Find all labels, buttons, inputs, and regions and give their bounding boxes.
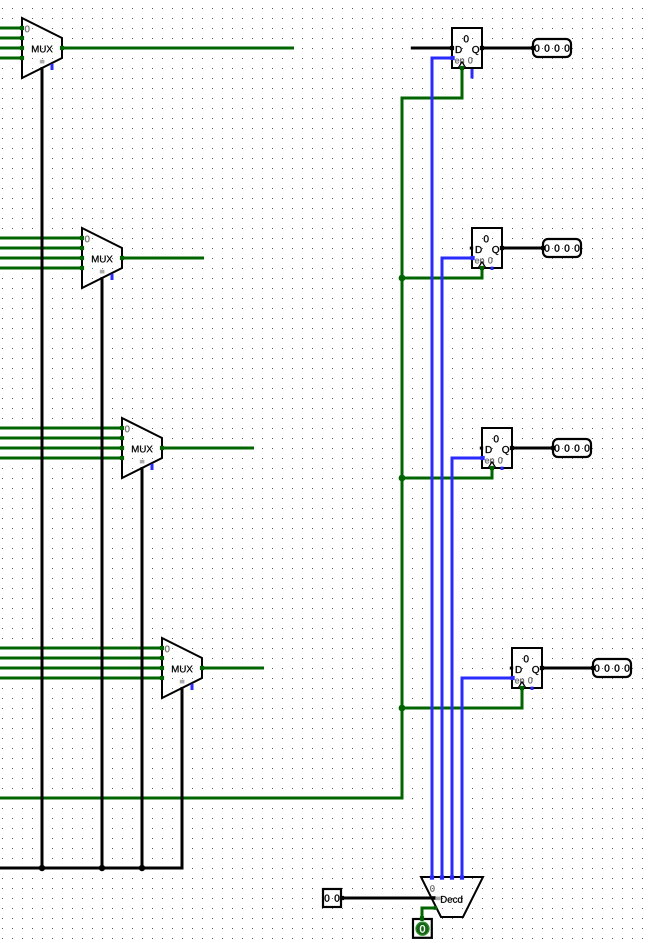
wire: MUX4 data input 2 [0, 667, 162, 670]
wire: MUX2 output [122, 257, 204, 260]
junction: select bus at (42,868) [39, 865, 45, 871]
wire: MUX4 output [202, 667, 264, 670]
wire: MUX2 select vertical [101, 277, 104, 868]
wire: MUX4 data input 1 [0, 657, 162, 660]
pin connection caps: enable inputs and decoder outputs (blue) [430, 56, 515, 880]
wire: MUX1 data input 0 [0, 27, 22, 30]
wire: MUX1 data input 3 [0, 57, 22, 60]
junction: clock net at (402,708) [399, 705, 406, 712]
junction: clock net at (402,478) [399, 475, 406, 482]
wire: U2 Q output to OUT2 [502, 247, 543, 250]
pin connection caps: flip-flop clock pins (green) [460, 66, 524, 690]
pin connection caps: MUX inputs/outputs (green) [20, 26, 204, 680]
mux MUX2 [82, 228, 122, 288]
output probe OUT2 (4-bit value 0000) [543, 239, 581, 257]
wire: MUX2 data input 1 [0, 247, 82, 250]
pin connection caps: black (D inputs, Q outputs, probe inputs, P1, decoder select) [340, 46, 595, 900]
junction: select bus at (102,868) [99, 865, 105, 871]
wire: select bus horizontal + MUX4 select vertical [0, 687, 182, 868]
wire: MUX1 data input 2 [0, 47, 22, 50]
mux MUX3 [122, 418, 162, 478]
wire: U4 Q output to OUT4 [542, 667, 593, 670]
output probe OUT4 (4-bit value 0000) [593, 659, 631, 677]
output probe OUT3 (4-bit value 0000) [553, 439, 591, 457]
wire: U1 preset pin stub (floating) [471, 68, 474, 79]
wire: MUX3 data input 3 [0, 457, 122, 460]
wire: clock branch to U3 [402, 468, 492, 478]
wire: MUX1 data input 1 [0, 37, 22, 40]
junction: clock net at (402,278) [399, 275, 406, 282]
wire: MUX3 select vertical [141, 467, 144, 868]
wire: U1 D input [411, 47, 452, 50]
wire: clock net trunk (U1 clock, down x=402, left along y=798) [0, 68, 462, 798]
input pin P2 (1-bit, value 0, green state circle) [413, 919, 432, 938]
wire: MUX3 data input 1 [0, 437, 122, 440]
wire: decoder output 1 to U2 enable [442, 258, 472, 879]
wire: MUX4 data input 3 [0, 677, 162, 680]
wire: U1 Q output to OUT1 [482, 47, 533, 50]
wire: MUX2 data input 0 [0, 237, 82, 240]
decoder DEC1 [421, 877, 483, 917]
mux MUX4 [162, 638, 202, 698]
flip-flop U2 (D register cell, value 0) [470, 228, 502, 270]
wire: MUX1 select vertical [41, 67, 44, 868]
wire: decoder output 2 to U3 enable [452, 458, 482, 879]
wire: decoder output 0 to U1 enable [432, 58, 452, 879]
wire: MUX3 data input 0 [0, 427, 122, 430]
flip-flop U1 (D register cell, value 0) [452, 28, 482, 68]
wire: MUX4 data input 0 [0, 647, 162, 650]
flip-flop U4 (D register cell, value 0) [510, 648, 542, 690]
output probe OUT1 (4-bit value 0000) [533, 39, 571, 57]
wire: MUX2 data input 3 [0, 267, 82, 270]
wire: decoder enable from pin P2 [422, 908, 437, 921]
wire: decoder output 3 to U4 enable [462, 678, 512, 879]
mux MUX1 [22, 18, 62, 78]
wire: clock branch to U4 [402, 688, 522, 708]
wire: MUX3 data input 2 [0, 447, 122, 450]
flip-flop U3 (D register cell, value 0) [480, 428, 512, 470]
wire: MUX1 output [62, 47, 294, 50]
input pin P1 (2-bit, value 00) [323, 889, 341, 907]
wire: MUX2 data input 2 [0, 257, 82, 260]
junction: select bus at (142,868) [139, 865, 145, 871]
pin connection caps: P2 output and decoder enable (green) [420, 906, 437, 920]
wire: clock branch to U2 [402, 268, 482, 278]
wire: MUX3 output [162, 447, 254, 450]
wire: pin P1 to decoder DEC1 select input [342, 897, 435, 900]
wire: U3 Q output to OUT3 [512, 447, 553, 450]
